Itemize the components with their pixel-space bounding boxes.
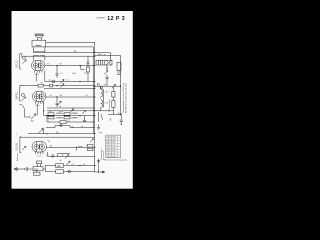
junction dot (56, 65, 57, 66)
antenna coil box 700 (33, 167, 43, 171)
pin stubs V3 (35, 152, 43, 154)
junction dot (121, 124, 122, 125)
tick x110.5 (110, 118, 112, 120)
ground symbol x98.5 (97, 124, 100, 130)
tube V1 bracket (20, 54, 22, 70)
wire y110.8 (47, 110, 95, 112)
grid arrow V2 (22, 97, 26, 101)
resistor on y171.5 (56, 170, 64, 173)
cap chain x121 (120, 113, 123, 124)
wire y156.6 (48, 156, 95, 158)
mixer tube V3 (32, 142, 47, 153)
wire y55.4 right (95, 54, 121, 56)
svg-text:50: 50 (47, 64, 49, 66)
circle on y86.2 (100, 86, 103, 89)
antenna cap (26, 167, 33, 171)
svg-text:Messwerte ohne Signal gem.: Messwerte ohne Signal gem. (105, 159, 129, 162)
svg-text:1a 95 12 9 2: 1a 95 12 9 2 (106, 139, 115, 141)
wire y133.7 (28, 133, 95, 135)
voltage table (106, 135, 121, 158)
wire y86.2 (95, 85, 121, 87)
svg-text:50: 50 (50, 95, 52, 97)
svg-text:UBF11: UBF11 (16, 92, 19, 100)
resistor above V2 (38, 84, 43, 87)
capacitor C5 (56, 66, 59, 78)
pot circle (52, 80, 55, 83)
svg-text:1M: 1M (59, 64, 62, 66)
dot and drop on y147.3 (76, 147, 77, 148)
svg-text:5000: 5000 (59, 111, 63, 113)
antenna arrow (14, 167, 25, 171)
svg-text:1M: 1M (50, 145, 53, 147)
svg-text:25: 25 (86, 145, 88, 147)
arrow below selector (104, 71, 108, 75)
svg-text:Antenne: Antenne (16, 152, 19, 161)
arrow on y110.8 (70, 109, 74, 113)
small box on y85.6 (50, 84, 53, 87)
output tube V1 (32, 61, 46, 71)
arrow near x40,y130 (39, 129, 44, 134)
svg-text:0,2: 0,2 (72, 164, 75, 166)
wire y147.3 (47, 146, 95, 148)
wire y115.7 (44, 115, 95, 117)
tick and label Ta on y133.7 (57, 132, 59, 133)
winding drops to tube (33, 56, 45, 60)
IF tube V2 (33, 92, 47, 102)
wire y127.7 with jog (46, 126, 95, 128)
svg-text:0,1: 0,1 (49, 80, 52, 82)
junction dot (56, 96, 57, 97)
svg-text:100: 100 (57, 165, 62, 168)
junction dots right bus (120, 86, 121, 87)
svg-text:4: 4 (48, 120, 49, 122)
svg-text:5g 45 13 2 1: 5g 45 13 2 1 (106, 151, 115, 153)
vertical x47 (46, 116, 48, 122)
resistor pair right (88, 145, 94, 148)
svg-text:220: 220 (98, 54, 101, 56)
svg-text:Alle Werte in Ohm bzw. pF gem.: Alle Werte in Ohm bzw. pF gem. (125, 82, 128, 113)
schematic page (12, 11, 133, 189)
svg-text:4a 90 25 8 2: 4a 90 25 8 2 (106, 148, 115, 150)
ground cap x98.5 (97, 159, 100, 173)
cap below (106, 65, 109, 86)
svg-text:UCL11: UCL11 (16, 60, 19, 68)
grid wire above V3 (20, 136, 95, 138)
main vertical bus (94, 42, 96, 172)
junction dot (94, 86, 95, 87)
grid arrow V1 (22, 60, 26, 64)
short wire y153.5 (58, 154, 71, 157)
junction dot (98, 171, 99, 172)
pot arrow (60, 79, 64, 83)
drop from anode dot (81, 66, 85, 70)
resistor on y122 (60, 121, 66, 124)
IF coil labels (105, 92, 110, 105)
wire y114.5 right (108, 114, 121, 116)
cathode drop V2 (36, 104, 38, 116)
trimmer arrow Th (31, 114, 36, 120)
bus junction dots (93, 52, 96, 166)
svg-text:5000: 5000 (72, 73, 76, 75)
svg-text:Wellenschalter: Wellenschalter (108, 99, 111, 112)
junction dots (46, 115, 47, 116)
ticks on y55.4 (100, 54, 105, 55)
arrow on y85.6 (61, 84, 65, 88)
junction dot (79, 165, 80, 166)
svg-text:12 P 3: 12 P 3 (107, 16, 125, 22)
resistor right col 2 (112, 101, 115, 108)
right vertical bus (120, 55, 122, 114)
ticks below right box (117, 70, 121, 74)
misc value labels (47, 54, 101, 166)
wire y171.5 (45, 171, 94, 173)
IF coil upper (101, 86, 103, 98)
resistor pair 2 (64, 113, 70, 116)
tube drop (44, 71, 46, 82)
tube V2 bracket (20, 86, 22, 102)
svg-text:1 2 3 u: 1 2 3 u (34, 74, 40, 76)
svg-text:R 22 1c 95 2: R 22 1c 95 2 (106, 137, 116, 139)
svg-text:300: 300 (49, 111, 52, 113)
tube V3 bracket (20, 137, 21, 153)
svg-text:0,5: 0,5 (66, 80, 69, 82)
wire y52.7 right (95, 53, 111, 61)
svg-text:Spg.: Spg. (99, 132, 103, 134)
grid arrow V3 (22, 146, 26, 150)
arrow on y165.5 (67, 161, 71, 165)
svg-text:0,1: 0,1 (60, 73, 63, 75)
ticks near ZF row (98, 83, 100, 85)
RC chain x88 (87, 56, 90, 67)
svg-text:3k 12 52 1 5: 3k 12 52 1 5 (106, 145, 115, 147)
vertical x43.7 (43, 102, 45, 116)
secondary winding row y56.2 (23, 55, 95, 57)
output arrow right (99, 171, 105, 173)
junction dot (43, 110, 44, 111)
svg-text:2M: 2M (84, 73, 87, 75)
svg-text:1 2 3 u: 1 2 3 u (35, 105, 41, 107)
AGC arc x24.5 (20, 104, 32, 117)
short vertical x98.5 (98, 112, 100, 122)
vertical x43.7 lower (43, 128, 45, 134)
arrow diag (58, 101, 62, 105)
wire y122 (47, 121, 93, 123)
table cell text (106, 137, 116, 159)
small coil on y147.3 (78, 146, 82, 149)
capacitor at x57 (56, 97, 59, 107)
junction dot (79, 65, 80, 66)
junction dot (56, 85, 57, 86)
wire anode y65.5 (45, 65, 95, 67)
coil rows 1 (57, 112, 63, 115)
junction dot (79, 81, 80, 82)
curly x101.5 (101, 114, 102, 120)
junction dot (94, 133, 95, 134)
svg-text:z: z (16, 134, 17, 136)
wire y165.5 (45, 165, 94, 167)
cathode drop V1 (35, 73, 37, 82)
connections resistors (112, 86, 114, 114)
grid cap circle V1 (22, 56, 25, 59)
cable curly left (21, 53, 24, 57)
resistor right col 1 (112, 92, 115, 98)
pin stubs V1 (35, 71, 43, 73)
arrow near bus on y141 (90, 139, 93, 143)
wire HT second (46, 46, 94, 48)
wire y81.5 (45, 81, 95, 83)
svg-text:1M: 1M (60, 95, 63, 97)
svg-text:5k: 5k (60, 160, 62, 162)
speaker LS (35, 34, 44, 40)
arrow on band right (82, 111, 86, 115)
grid cap circle V2 (21, 93, 24, 96)
dot below selector (106, 68, 107, 69)
vertical from V3 to y156.6 (47, 152, 49, 157)
second vertical bus (92, 47, 94, 134)
resistor 100 (56, 164, 64, 168)
wire HT top (46, 41, 95, 43)
svg-text:10: 10 (62, 155, 64, 157)
svg-text:Lorenz: Lorenz (97, 16, 106, 20)
svg-text:6k 10 41 7 4: 6k 10 41 7 4 (106, 153, 115, 155)
arrow on y156.6 (65, 155, 69, 159)
component above 700 (37, 161, 42, 164)
arrow on y86.2 (112, 84, 116, 88)
wire anode y97 (46, 96, 95, 98)
coil rows 2 (72, 112, 78, 115)
IF transformer core (103, 89, 105, 108)
mains selector box (96, 60, 112, 65)
svg-text:2g 85 11 4 1: 2g 85 11 4 1 (106, 142, 115, 144)
output transformer Tr (32, 40, 46, 47)
cap x84.5 (83, 116, 86, 122)
wire y108 (47, 107, 95, 109)
resistor pair 1 (48, 113, 54, 116)
svg-text:UCH11: UCH11 (16, 142, 19, 151)
circle on y171.5 (68, 170, 71, 173)
svg-text:5k: 5k (81, 126, 83, 128)
svg-text:3 1 2 u: 3 1 2 u (37, 156, 43, 158)
svg-text:7h 30 15 3 2: 7h 30 15 3 2 (106, 156, 115, 158)
IF coil lower (101, 100, 103, 111)
box right of selector (117, 62, 121, 70)
circle on jog (60, 124, 62, 126)
svg-text:2k: 2k (87, 65, 89, 67)
junction dot y133.7 (46, 133, 47, 134)
svg-text:0,1: 0,1 (67, 120, 70, 122)
transformer drops (34, 47, 45, 52)
primary winding row y52.3 (34, 51, 95, 53)
svg-text:30: 30 (83, 164, 85, 166)
box below 700 (34, 172, 41, 175)
svg-text:700: 700 (34, 168, 39, 171)
wire from 700 to vertical (43, 166, 45, 172)
pin stubs V2 (36, 102, 44, 104)
junction dot (24, 168, 25, 169)
svg-text:0,1: 0,1 (86, 95, 89, 97)
wire y88.4 (44, 87, 95, 89)
screen wire y85.6 (20, 85, 95, 87)
value label row y73.5 (60, 73, 87, 75)
bus corner to output arrow (95, 171, 99, 173)
svg-text:5k: 5k (72, 127, 74, 129)
wire y110.8 right (95, 110, 114, 112)
cap vertical on y156.6 (52, 154, 53, 157)
